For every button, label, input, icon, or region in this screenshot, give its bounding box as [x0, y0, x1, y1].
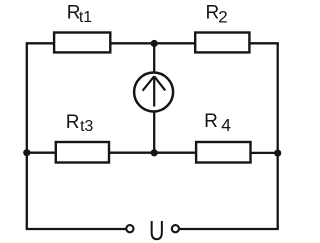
- resistor R2: [195, 33, 249, 53]
- terminal left: [126, 225, 133, 232]
- wire top left segment: [26, 42, 54, 44]
- node center junction: [151, 149, 158, 156]
- wire left rail: [26, 43, 28, 229]
- wire row2 middle segment: [109, 152, 196, 154]
- svg-text:t3: t3: [80, 118, 93, 135]
- svg-text:R: R: [66, 112, 80, 133]
- svg-text:4: 4: [221, 115, 231, 135]
- wire top right segment: [251, 42, 279, 44]
- node top junction: [151, 40, 158, 47]
- wire top middle segment: [111, 42, 195, 44]
- wire row2 right segment: [251, 152, 279, 154]
- node right junction: [274, 150, 281, 157]
- wire bottom left segment: [26, 228, 126, 230]
- node left junction: [23, 149, 30, 156]
- current source I: [134, 73, 173, 112]
- svg-text:U: U: [149, 215, 165, 243]
- wire right rail: [277, 43, 279, 229]
- resistor R4: [196, 142, 250, 163]
- wire bottom right segment: [180, 228, 279, 230]
- svg-text:R: R: [206, 3, 220, 24]
- wire center column top stub: [153, 43, 155, 72]
- svg-text:R: R: [204, 111, 218, 132]
- terminal right: [172, 225, 179, 232]
- svg-text:2: 2: [218, 8, 227, 27]
- resistor Rt1: [54, 33, 110, 53]
- wire row2 left segment: [26, 152, 56, 154]
- svg-text:t1: t1: [79, 9, 92, 26]
- wire center column bottom stub: [153, 112, 155, 153]
- resistor Rt3: [56, 142, 109, 163]
